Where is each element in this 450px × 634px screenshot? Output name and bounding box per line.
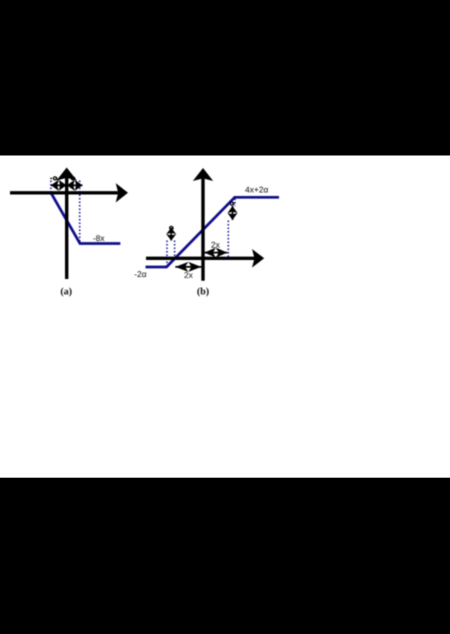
label 2x upper (b)	[211, 242, 219, 248]
dotted guide left-2 (b)	[174, 241, 176, 260]
label alpha right (b)	[230, 202, 234, 205]
horizontal double arrow lower (b)	[175, 262, 201, 272]
y-axis (a)	[65, 178, 68, 279]
label -alpha (a)	[50, 177, 57, 180]
label -2alpha (b)	[135, 271, 147, 277]
x-axis (a)	[10, 191, 118, 194]
dotted guide at x=-alpha (a)	[50, 181, 52, 195]
label alpha (a)	[71, 177, 75, 180]
caption (b)	[197, 287, 208, 296]
y-axis arrowhead (b)	[193, 168, 213, 181]
label 2x lower (b)	[184, 272, 192, 278]
white figure band	[0, 156, 450, 478]
double arrow -alpha..0 (a)	[51, 180, 67, 191]
dotted guide left-1 (b)	[166, 241, 168, 266]
label alpha left (b)	[170, 226, 174, 229]
label 4x+2alpha (b)	[245, 187, 268, 193]
dotted guide right upper (b)	[234, 199, 236, 207]
vertical double arrow left (b)	[166, 228, 176, 241]
dotted guide right lower (b)	[227, 221, 229, 259]
y-axis (b)	[201, 179, 204, 281]
horizontal double arrow upper (b)	[204, 248, 227, 258]
blue curve (b)	[146, 197, 280, 267]
vertical double arrow right (b)	[228, 206, 238, 220]
x-axis (b)	[146, 257, 255, 260]
double arrow 0..alpha (a)	[67, 180, 83, 191]
x-axis arrowhead (a)	[116, 183, 128, 202]
x-axis arrowhead (b)	[252, 249, 264, 268]
y-axis arrowhead (a)	[57, 168, 77, 181]
blue curve (a)	[52, 194, 121, 244]
label -8x (a)	[93, 235, 104, 241]
dotted guide at x=+alpha (a)	[79, 181, 81, 244]
caption (a)	[61, 287, 72, 296]
